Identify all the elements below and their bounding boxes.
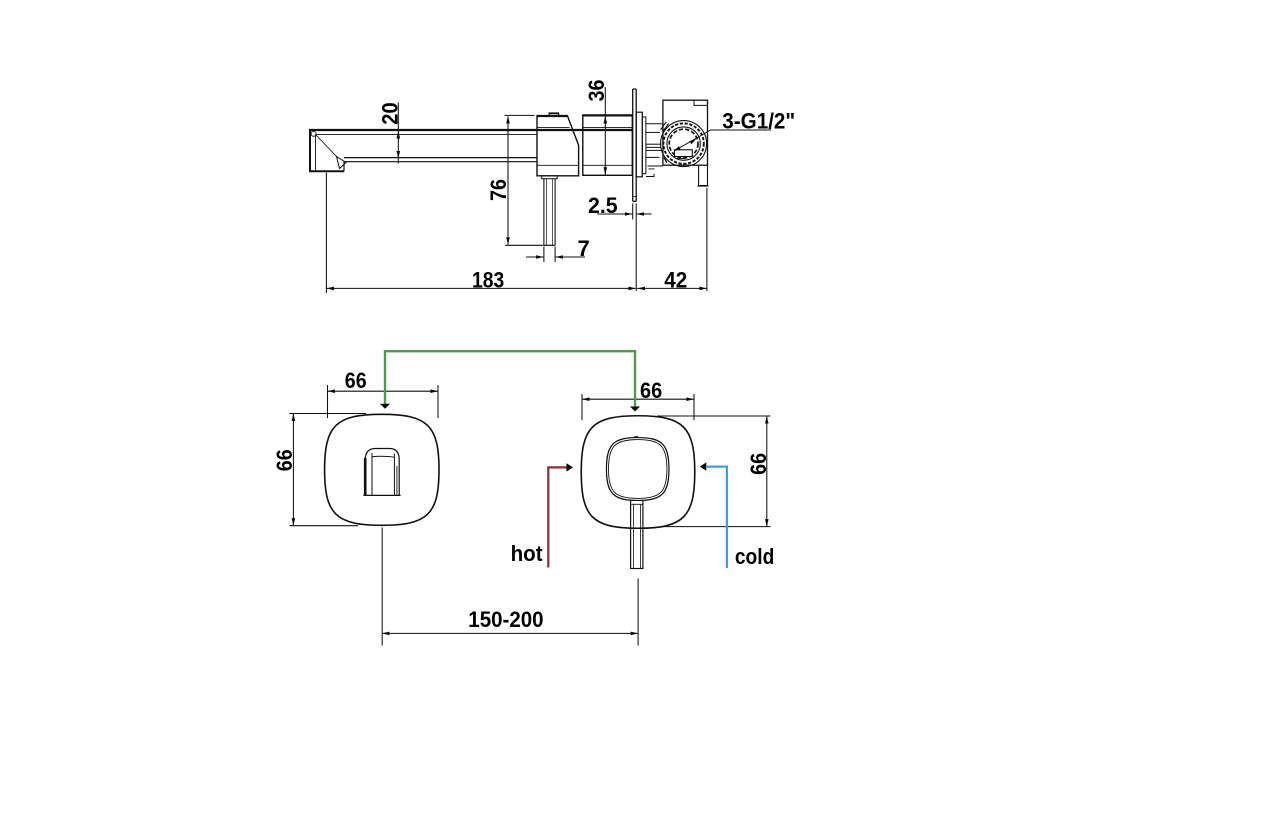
right 66v top ext bbox=[657, 415, 771, 417]
valve body top step bbox=[694, 100, 708, 105]
handle top tab bbox=[549, 113, 558, 116]
arrowheads top view bbox=[326, 116, 707, 290]
dim150 arrow R bbox=[631, 632, 639, 636]
rod ext lines bbox=[543, 247, 545, 263]
arrow dim36 up bbox=[604, 116, 608, 124]
valve body bbox=[663, 100, 708, 165]
spout tip right edge bbox=[343, 162, 345, 172]
front view dimension lines bbox=[290, 385, 771, 646]
nozzle inner top bbox=[372, 456, 394, 457]
left66v arrow T bbox=[292, 414, 296, 422]
front view texts bbox=[272, 368, 775, 632]
dim 183 line bbox=[326, 287, 636, 289]
arrow dim2.5 right bbox=[625, 212, 633, 216]
svg-text:2.5: 2.5 bbox=[588, 193, 618, 218]
spout tip inner vertical bbox=[315, 135, 317, 171]
body block B2 inner top line bbox=[583, 126, 633, 128]
flange bbox=[636, 112, 642, 177]
spout top edge bbox=[309, 129, 633, 131]
dim 150-200 line bbox=[382, 632, 638, 634]
svg-text:66: 66 bbox=[746, 453, 771, 475]
aerator triangle bbox=[337, 157, 347, 169]
left 66h dim line bbox=[328, 390, 439, 392]
left 66v top ext bbox=[290, 413, 367, 415]
valve slot lower marks bbox=[677, 157, 686, 159]
left66v arrow B bbox=[292, 518, 296, 526]
lever outer bbox=[630, 500, 632, 569]
svg-text:150-200: 150-200 bbox=[468, 607, 543, 632]
arrow dim20 up bbox=[397, 131, 401, 139]
dimension texts top view bbox=[377, 80, 795, 293]
valve right ext line bbox=[706, 188, 708, 291]
right escutcheon squircle bbox=[581, 416, 695, 529]
spout tip diagonal bbox=[316, 135, 338, 158]
dim 7 left line bbox=[526, 256, 544, 258]
left escutcheon squircle bbox=[325, 414, 439, 525]
handle rod bbox=[543, 179, 545, 246]
arrow dim36 down bbox=[604, 167, 608, 175]
dim 36 line bbox=[604, 87, 606, 175]
dim 76 line bbox=[507, 117, 509, 245]
right 66h dim line bbox=[582, 398, 694, 400]
left 66v bottom ext bbox=[290, 525, 359, 527]
nozzle right step bbox=[396, 466, 398, 495]
body block B2 inner bottom line bbox=[583, 164, 633, 166]
nozzle inner verticals bbox=[371, 453, 373, 495]
left66h arrow L bbox=[328, 389, 336, 393]
arrow dim7 right bbox=[536, 255, 544, 259]
arrow dim76 up bbox=[506, 116, 510, 124]
svg-text:66: 66 bbox=[640, 378, 662, 403]
left plate center ext bbox=[381, 528, 383, 646]
right66v arrow B bbox=[765, 519, 769, 527]
rosette top notch bbox=[634, 436, 638, 439]
leader arrow lower bbox=[674, 146, 681, 151]
flange second step bbox=[642, 117, 646, 174]
spout tip bottom bbox=[309, 170, 344, 172]
svg-text:66: 66 bbox=[272, 449, 297, 471]
valve neck lines bbox=[646, 123, 663, 125]
hot connector red bbox=[548, 467, 566, 567]
right 66h ext lines bbox=[581, 394, 583, 420]
red arrow bbox=[567, 463, 574, 471]
dim 7 right line bbox=[555, 256, 585, 258]
spout bottom line outer bbox=[344, 161, 537, 163]
valve leg bbox=[698, 165, 700, 185]
svg-text:36: 36 bbox=[584, 80, 609, 102]
dim 2.5 left line bbox=[597, 213, 632, 215]
handle rosette inner bbox=[609, 440, 667, 499]
blue arrow bbox=[700, 462, 707, 470]
right66h arrow L bbox=[582, 397, 590, 401]
right handle center ext bbox=[637, 579, 639, 646]
svg-text:76: 76 bbox=[486, 179, 511, 201]
handle rod cap bbox=[542, 176, 558, 179]
wall ext line bbox=[635, 204, 637, 292]
svg-text:66: 66 bbox=[345, 368, 367, 393]
spout tip corner arc bbox=[311, 131, 316, 136]
green arrow left bbox=[380, 404, 390, 409]
valve circle ring 4 bbox=[669, 129, 698, 158]
dim 42 line bbox=[637, 287, 707, 289]
left 66v dim line bbox=[292, 414, 294, 526]
arrow dim42 right bbox=[699, 287, 707, 291]
left 66h ext lines bbox=[327, 385, 329, 418]
svg-text:7: 7 bbox=[578, 236, 590, 261]
ext line spout tip down bbox=[325, 173, 327, 294]
spout bottom line inner bbox=[344, 157, 537, 159]
arrow dim76 down bbox=[506, 237, 510, 245]
leader 3-G1/2 bbox=[674, 130, 771, 151]
cold connector blue bbox=[707, 467, 727, 568]
arrow dim2.5 left bbox=[637, 212, 645, 216]
lever top cap bbox=[631, 503, 643, 505]
body block B2 bbox=[583, 115, 633, 175]
arrow dim42 left bbox=[638, 287, 646, 291]
lever bottom cap bbox=[630, 568, 643, 570]
valve slot bbox=[675, 150, 693, 157]
valve circle ring 2 bbox=[663, 123, 703, 163]
green arrow right bbox=[630, 407, 640, 412]
svg-text:hot: hot bbox=[511, 541, 544, 566]
dim 76 top ext bbox=[505, 114, 535, 116]
svg-text:42: 42 bbox=[664, 267, 687, 292]
arrow dim183 left bbox=[326, 287, 334, 291]
arrow dim7 left bbox=[555, 255, 563, 259]
arrow dim183 right bbox=[628, 287, 636, 291]
handle block B1 bbox=[537, 116, 579, 176]
handle rosette outer bbox=[606, 438, 669, 501]
lever inner lines bbox=[632, 504, 634, 568]
valve circle ring 1 bbox=[661, 121, 707, 167]
dimension graphics bbox=[326, 87, 771, 293]
handle block B1 inner bottom line bbox=[537, 164, 579, 166]
right 66v dim line bbox=[766, 416, 768, 527]
wall plate bbox=[632, 89, 634, 201]
spout inner top line bbox=[316, 134, 538, 136]
right66h arrow R bbox=[687, 397, 695, 401]
FRONT VIEW bbox=[325, 414, 695, 568]
svg-text:20: 20 bbox=[377, 102, 402, 124]
valve circle ring 3 bbox=[667, 127, 700, 160]
arrow dim20 down bbox=[397, 151, 401, 159]
valve ear bbox=[661, 122, 669, 131]
right66v arrow T bbox=[765, 416, 769, 424]
handle block B1 inner top line bbox=[537, 126, 570, 128]
nozzle outer bbox=[365, 449, 399, 496]
leader arrow upper bbox=[690, 139, 697, 144]
svg-text:cold: cold bbox=[735, 544, 774, 569]
left66h arrow R bbox=[431, 389, 439, 393]
front view arrowheads bbox=[292, 389, 769, 635]
green connector bbox=[385, 351, 635, 407]
dim 20 line bbox=[397, 103, 399, 164]
svg-text:183: 183 bbox=[472, 267, 504, 292]
svg-text:3-G1/2": 3-G1/2" bbox=[722, 108, 795, 133]
spout tip left edge bbox=[309, 129, 311, 172]
valve bottom-left nub bbox=[664, 157, 667, 162]
plate front stub ext bbox=[632, 204, 634, 220]
dim 2.5 right line bbox=[637, 213, 652, 215]
dim 76 bottom ext bbox=[505, 244, 544, 246]
dim150 arrow L bbox=[382, 632, 390, 636]
right 66v bottom ext bbox=[663, 526, 771, 528]
